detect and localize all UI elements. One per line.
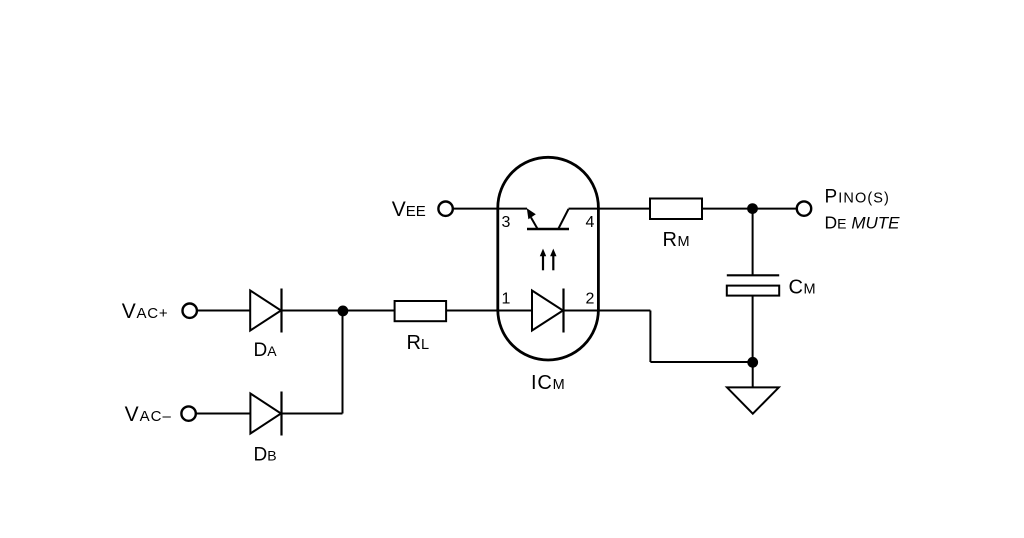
- light arrow right: [550, 249, 556, 271]
- light arrow left: [540, 249, 546, 271]
- transistor Q1 emitter with arrow: [527, 208, 538, 228]
- terminal Vac-: [181, 406, 195, 420]
- svg-text:DA: DA: [254, 340, 278, 361]
- transistor Q1 collector: [559, 209, 569, 229]
- svg-text:VAC+: VAC+: [122, 300, 169, 323]
- wire corner up to node A: [342, 311, 344, 414]
- node B junction dot: [747, 203, 758, 214]
- svg-text:RL: RL: [407, 332, 430, 354]
- svg-text:PINO(S): PINO(S): [825, 187, 891, 208]
- svg-text:DB: DB: [254, 445, 277, 466]
- diode DA triangle: [250, 291, 281, 331]
- wire Vee to pin 3: [453, 208, 527, 210]
- diode DA cathode bar: [280, 289, 282, 333]
- svg-text:VEE: VEE: [392, 198, 426, 221]
- wire CM to ground node: [752, 295, 754, 362]
- wire ground node to ground symbol: [752, 362, 754, 387]
- wire Vac+ to DA: [197, 310, 250, 312]
- wire to ground node: [650, 361, 752, 363]
- wire DB to corner: [282, 413, 343, 415]
- op-to package ICM outline: [498, 157, 599, 360]
- wire node A to RL: [343, 310, 395, 312]
- LED D1 triangle: [532, 291, 563, 331]
- diode DB triangle: [250, 394, 281, 434]
- transistor Q1 base bar: [527, 228, 569, 230]
- LED D1 cathode bar: [562, 289, 564, 333]
- wire DA to node A: [282, 310, 344, 312]
- wire RL to LED: [446, 310, 532, 312]
- wire node B down to CM: [752, 209, 754, 276]
- wire corner down: [649, 311, 651, 363]
- svg-text:1: 1: [502, 291, 511, 308]
- capacitor CM bottom plate: [727, 286, 779, 296]
- ground node junction dot: [747, 357, 758, 368]
- svg-text:4: 4: [586, 214, 595, 231]
- svg-text:RM: RM: [663, 229, 691, 251]
- svg-text:ICM: ICM: [531, 372, 566, 394]
- terminal Pino(s) de MUTE: [797, 201, 811, 215]
- wire RM to node B: [702, 208, 753, 210]
- wire node B to terminal: [753, 208, 797, 210]
- resistor RL: [395, 301, 447, 321]
- wire Vac- to DB: [196, 413, 250, 415]
- capacitor CM top plate: [727, 274, 779, 276]
- svg-text:DE MUTE: DE MUTE: [825, 213, 901, 233]
- terminal Vac+: [183, 304, 197, 318]
- wire pin 4 to RM: [569, 208, 651, 210]
- node A junction dot: [338, 306, 349, 317]
- terminal Vee: [438, 202, 452, 216]
- svg-text:3: 3: [502, 214, 511, 231]
- ground symbol: [727, 387, 779, 413]
- wire pin 2 to corner: [564, 310, 651, 312]
- svg-text:2: 2: [586, 291, 595, 308]
- svg-text:CM: CM: [789, 277, 817, 299]
- diode DB cathode bar: [280, 392, 282, 436]
- svg-text:VAC–: VAC–: [125, 403, 172, 426]
- resistor RM: [650, 199, 702, 220]
